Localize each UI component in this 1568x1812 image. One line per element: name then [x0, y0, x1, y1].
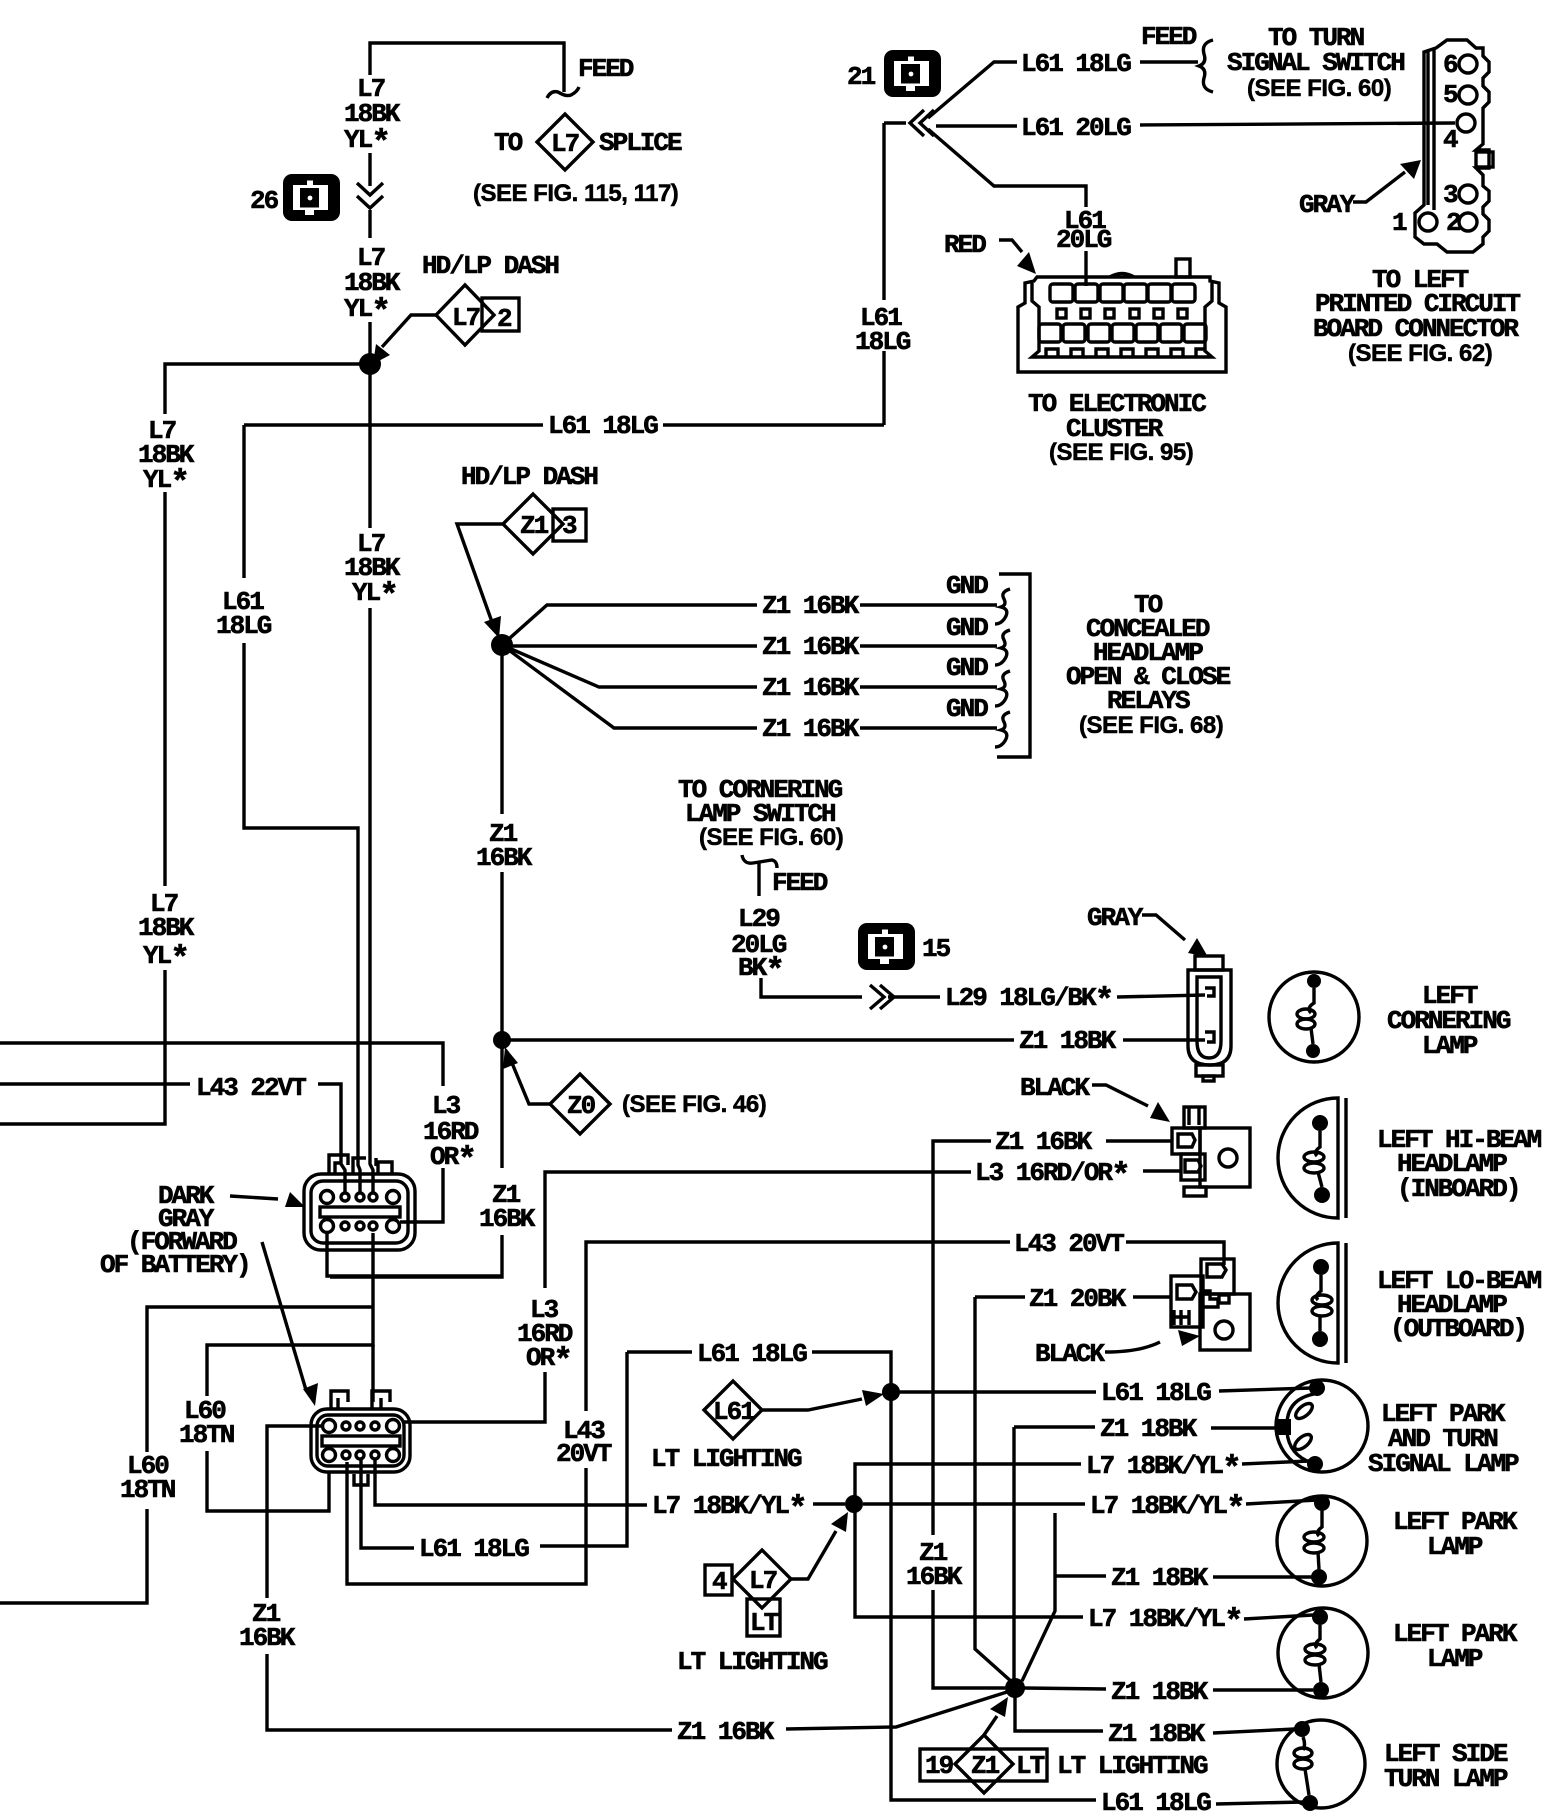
diamond L7 with box 2 (HD/LP DASH pointer) — [482, 298, 519, 331]
svg-text:20LG: 20LG — [1056, 225, 1112, 255]
wire — [1318, 1316, 1321, 1331]
middle slot — [320, 1207, 400, 1217]
wire L7 feed top — [370, 43, 564, 92]
L7 #1 — [855, 1464, 1081, 1504]
wire — [1459, 55, 1477, 73]
svg-text:3: 3 — [1443, 180, 1458, 210]
wire — [627, 1350, 692, 1353]
box — [1203, 1076, 1214, 1081]
wire — [1219, 1388, 1312, 1391]
svg-text:L61 18LG: L61 18LG — [1021, 49, 1131, 79]
wire — [356, 1451, 364, 1459]
cornering bulb — [1269, 972, 1359, 1062]
svg-text:LT: LT — [750, 1608, 779, 1638]
arrowhead — [484, 616, 501, 638]
box — [1081, 309, 1090, 318]
wire — [1117, 995, 1205, 997]
wire — [791, 1531, 836, 1579]
filament coil — [1312, 1306, 1332, 1316]
L3 16RD/OR* wire — [1143, 1169, 1181, 1172]
svg-text:2: 2 — [1446, 208, 1461, 238]
wire — [1189, 1107, 1199, 1125]
wire — [323, 1449, 336, 1462]
svg-text:15: 15 — [922, 934, 951, 964]
svg-text:20VT: 20VT — [556, 1439, 612, 1469]
L7 #3 — [855, 1504, 1083, 1617]
wire — [1185, 1160, 1201, 1172]
arrowhead — [990, 1697, 1008, 1717]
wire — [999, 240, 1022, 252]
cornering lamp connector — [1188, 956, 1231, 1081]
svg-text:(SEE FIG. 95): (SEE FIG. 95) — [1049, 439, 1193, 466]
box — [1100, 284, 1123, 302]
svg-text:Z1 18BK: Z1 18BK — [1108, 1719, 1206, 1749]
svg-text:Z1 16BK: Z1 16BK — [677, 1717, 775, 1747]
lo-beam connector — [1171, 1259, 1250, 1350]
wire — [502, 645, 757, 728]
svg-text:GRAY: GRAY — [1299, 190, 1356, 220]
junction dot B — [491, 634, 513, 656]
wire — [341, 1222, 349, 1230]
Z0 diamond — [550, 1074, 610, 1134]
box — [1063, 324, 1085, 342]
junction dot C — [493, 1031, 511, 1049]
box — [1136, 324, 1158, 342]
svg-text:LAMP: LAMP — [1427, 1644, 1483, 1674]
svg-text:LAMP: LAMP — [1422, 1031, 1478, 1061]
svg-text:Z1 16BK: Z1 16BK — [762, 673, 860, 703]
pins row top — [321, 1191, 334, 1204]
wire — [984, 1716, 997, 1735]
svg-text:4: 4 — [712, 1567, 727, 1597]
junction dot — [1307, 974, 1321, 988]
box — [1171, 1276, 1203, 1327]
svg-text:SIGNAL SWITCH: SIGNAL SWITCH — [1227, 48, 1404, 78]
filament coil — [1294, 1759, 1312, 1769]
wire from diamond to junction — [457, 524, 503, 622]
box — [1130, 309, 1139, 318]
junction dot — [1312, 1609, 1328, 1625]
wire — [1244, 1615, 1313, 1619]
wire — [762, 1399, 862, 1410]
wire — [1211, 1426, 1276, 1429]
wire — [1216, 1802, 1303, 1804]
L61 diamond + arrow — [704, 1381, 762, 1439]
wire — [207, 1451, 329, 1511]
side turn lamp — [1277, 1720, 1365, 1811]
box — [1154, 309, 1163, 318]
svg-text:3: 3 — [562, 511, 577, 541]
svg-text:(SEE FIG. 62): (SEE FIG. 62) — [1348, 340, 1492, 367]
wire — [371, 1451, 379, 1459]
wire — [342, 1422, 350, 1430]
box — [1200, 1294, 1250, 1350]
svg-text:LT LIGHTING: LT LIGHTING — [1057, 1751, 1208, 1781]
arrowhead — [373, 344, 390, 364]
wire — [353, 1158, 376, 1174]
svg-text:LT LIGHTING: LT LIGHTING — [677, 1647, 828, 1677]
filament coil — [1304, 1532, 1324, 1542]
row2 small — [1057, 309, 1066, 318]
Z1 verticals to junction — [933, 1590, 1005, 1688]
wire — [1246, 1500, 1317, 1504]
filament coil — [1304, 1163, 1324, 1173]
wire — [1207, 1264, 1226, 1277]
wire — [1032, 283, 1212, 357]
svg-text:18TN: 18TN — [179, 1420, 234, 1450]
svg-text:Z1 16BK: Z1 16BK — [995, 1127, 1093, 1157]
wire — [860, 685, 997, 688]
wire — [1277, 1720, 1365, 1808]
relay hooks — [995, 589, 1010, 624]
arrowhead — [1400, 160, 1421, 179]
wire — [786, 1692, 1007, 1729]
wire — [1205, 988, 1214, 1042]
row1 boxes — [1050, 284, 1073, 302]
wire — [404, 1372, 545, 1422]
svg-text:L43 22VT: L43 22VT — [196, 1073, 306, 1103]
connector icon 15 — [858, 923, 915, 970]
wire — [1305, 1769, 1309, 1795]
svg-text:RED: RED — [944, 230, 986, 260]
wire — [1316, 1131, 1320, 1156]
box — [1172, 1128, 1200, 1154]
junction dot — [1313, 1682, 1329, 1698]
wire L61 left corner down — [242, 425, 245, 578]
junction dot — [845, 1495, 863, 1513]
wire from diamond to junction with arrowhead — [382, 315, 436, 347]
wire — [331, 1391, 348, 1409]
wire — [545, 1172, 971, 1288]
wire — [1269, 972, 1359, 1062]
box — [1184, 1107, 1205, 1128]
junction dot — [1309, 1380, 1325, 1396]
wire — [975, 1297, 1013, 1683]
svg-text:LT LIGHTING: LT LIGHTING — [651, 1444, 802, 1474]
svg-text:1: 1 — [1392, 208, 1407, 238]
arrowhead — [831, 1512, 848, 1532]
wire — [1318, 1172, 1322, 1187]
svg-text:4: 4 — [1443, 125, 1458, 155]
wire — [733, 1550, 791, 1608]
Z1 18BK wire to cornering lamp — [502, 1038, 1014, 1041]
wire L61 horizontal y425 — [244, 423, 884, 426]
wire — [1318, 1511, 1322, 1536]
wire — [1213, 1729, 1295, 1733]
svg-text:Z1 16BK: Z1 16BK — [762, 591, 860, 621]
wire — [262, 1242, 306, 1390]
arrowhead — [862, 1390, 884, 1406]
wire — [1174, 1310, 1189, 1325]
wire — [1318, 1552, 1319, 1569]
wire — [323, 1420, 336, 1433]
L61 18LG from bottom-middle pin — [361, 1459, 414, 1548]
wire — [400, 1168, 443, 1222]
box — [1195, 956, 1223, 970]
wire — [1309, 988, 1314, 1013]
svg-text:LT: LT — [1016, 1751, 1045, 1781]
Z1 16BK below dot C — [500, 1040, 503, 1168]
wire — [1311, 1028, 1313, 1044]
svg-text:(SEE FIG. 60): (SEE FIG. 60) — [699, 824, 843, 851]
wire — [1276, 1380, 1368, 1472]
L7 18BK/YL* from bottom pin 3 — [375, 1459, 647, 1505]
wire — [368, 210, 371, 238]
inline connector symbol — [884, 50, 941, 97]
wire — [1022, 1513, 1055, 1681]
wire — [1303, 1737, 1305, 1750]
wire — [1278, 1608, 1368, 1698]
wires below connector 1 — [327, 1233, 503, 1276]
wire — [1242, 1461, 1309, 1464]
L7 #2 — [863, 1502, 1085, 1505]
wire — [1140, 123, 1455, 125]
wire — [1213, 1575, 1313, 1578]
terminal — [1275, 1419, 1291, 1435]
chevron marks << — [910, 110, 934, 136]
wire — [1140, 60, 1198, 63]
wire — [860, 726, 997, 729]
junction dot L61 — [882, 1383, 900, 1401]
wire — [1215, 1321, 1233, 1339]
box — [1184, 324, 1206, 342]
wire — [1188, 970, 1231, 1065]
svg-text:(OUTBOARD): (OUTBOARD) — [1390, 1314, 1526, 1344]
wire L7 — [368, 153, 371, 186]
box — [1181, 1154, 1205, 1180]
arrowhead — [1178, 1330, 1200, 1346]
box — [1219, 1295, 1229, 1303]
arrowhead — [1017, 252, 1036, 274]
wire — [1126, 1242, 1224, 1265]
svg-text:18BK: 18BK — [138, 913, 195, 943]
wire — [387, 1191, 400, 1204]
pins row bottom — [321, 1220, 334, 1233]
wire — [860, 603, 997, 606]
svg-text:Z1 18BK: Z1 18BK — [1111, 1563, 1209, 1593]
wire — [147, 1307, 373, 1452]
wire — [369, 1193, 377, 1201]
svg-text:Z1 18BK: Z1 18BK — [1111, 1677, 1209, 1707]
wire — [1178, 1134, 1195, 1147]
wire — [0, 970, 165, 1124]
arrowhead — [503, 1047, 518, 1069]
connector 2 bottom slot tab — [354, 1474, 368, 1485]
wire — [387, 1220, 400, 1233]
svg-text:HD/LP DASH: HD/LP DASH — [422, 251, 558, 281]
junction dot — [1314, 1187, 1330, 1203]
box — [1200, 1128, 1250, 1187]
wire — [267, 1654, 672, 1730]
box — [1178, 309, 1187, 318]
svg-text:16BK: 16BK — [239, 1623, 296, 1653]
wire — [1344, 1098, 1347, 1218]
wire — [1105, 1342, 1160, 1352]
diamond Z1 with box 3 — [553, 509, 586, 541]
top tab + bump — [1176, 259, 1190, 277]
hi-beam connector — [1172, 1107, 1250, 1196]
filament coil — [1304, 1152, 1324, 1162]
svg-text:L61 18LG: L61 18LG — [1101, 1378, 1211, 1408]
wire — [1459, 86, 1477, 104]
filament coil — [1297, 1019, 1315, 1029]
wire — [370, 608, 373, 1193]
svg-text:L61 18LG: L61 18LG — [697, 1339, 807, 1369]
wire — [955, 1735, 1013, 1793]
svg-text:16BK: 16BK — [476, 843, 533, 873]
svg-text:Z1: Z1 — [520, 511, 549, 541]
wire down-right to cluster — [928, 129, 1086, 207]
wire — [0, 1509, 147, 1603]
wire L61 18LG vertical x884 — [882, 123, 885, 300]
box — [1160, 324, 1182, 342]
svg-text:6: 6 — [1443, 50, 1458, 80]
svg-text:FEED: FEED — [578, 54, 634, 84]
box — [1105, 309, 1114, 318]
wire — [244, 643, 360, 1193]
wire — [1277, 1496, 1367, 1586]
hi-beam lamp — [1278, 1098, 1346, 1218]
arrowhead — [1150, 1102, 1170, 1122]
wire up-right to turn signal — [928, 62, 1017, 118]
wire — [0, 1082, 190, 1085]
wire — [1353, 172, 1405, 202]
svg-text:(SEE FIG. 46): (SEE FIG. 46) — [622, 1091, 766, 1118]
filament coil — [1305, 1644, 1325, 1654]
svg-text:Z1 18BK: Z1 18BK — [1100, 1414, 1198, 1444]
wire — [230, 1196, 278, 1199]
wire — [436, 285, 494, 345]
wire — [1012, 1427, 1015, 1688]
svg-text:GND: GND — [946, 694, 988, 724]
wire — [1213, 1688, 1313, 1691]
wire — [1459, 185, 1477, 203]
wire — [1278, 1243, 1338, 1363]
box — [747, 1599, 780, 1636]
box — [1088, 324, 1110, 342]
wire — [1177, 1285, 1196, 1299]
svg-text:L61 20LG: L61 20LG — [1021, 113, 1131, 143]
box — [1148, 284, 1171, 302]
svg-text:SPLICE: SPLICE — [599, 128, 682, 158]
wire — [1459, 213, 1477, 231]
wire — [503, 494, 563, 554]
filament coil — [1294, 1748, 1312, 1758]
wire — [356, 1193, 364, 1201]
wire L61 20LG to pcb connector — [936, 124, 1017, 127]
L43 20VT path — [347, 1462, 586, 1584]
svg-text:FEED: FEED — [1141, 22, 1197, 52]
Z1 20BK wire — [1133, 1295, 1171, 1298]
svg-text:(INBOARD): (INBOARD) — [1397, 1174, 1519, 1204]
svg-text:2: 2 — [497, 304, 512, 334]
wire from chevron hub — [884, 121, 906, 124]
junction dot — [1311, 1569, 1327, 1585]
filament coil — [1312, 1295, 1332, 1305]
box — [1112, 324, 1134, 342]
wire — [1142, 915, 1185, 940]
wire — [813, 1502, 845, 1505]
wire — [860, 644, 997, 647]
box — [1476, 152, 1493, 167]
Z1 16BK from top-left pin going left then down x267 — [267, 1426, 322, 1598]
svg-text:L7: L7 — [452, 303, 480, 333]
box — [317, 1415, 404, 1466]
wire — [812, 1352, 891, 1391]
wire — [1316, 1625, 1320, 1648]
svg-text:Z1 18BK: Z1 18BK — [1019, 1026, 1117, 1056]
bottom notches — [1046, 349, 1205, 357]
Z1 #2 (park lamp 1 bottom) — [1055, 1574, 1106, 1577]
svg-text:Z1 16BK: Z1 16BK — [762, 714, 860, 744]
wire — [207, 1233, 373, 1396]
box — [322, 1436, 400, 1446]
svg-text:L61 18LG: L61 18LG — [548, 411, 658, 441]
svg-text:Z0: Z0 — [567, 1091, 596, 1121]
Z1 #3 — [1024, 1688, 1106, 1689]
svg-text:TURN LAMP: TURN LAMP — [1384, 1764, 1508, 1794]
4 L7 LT symbol + arrow — [705, 1565, 732, 1595]
park lamp 1 — [1277, 1495, 1367, 1586]
wire — [1110, 274, 1134, 278]
wire — [1197, 977, 1221, 1058]
arrowhead — [1188, 938, 1208, 957]
wire L7 vertical below dot — [368, 364, 371, 528]
wire — [330, 1235, 502, 1277]
svg-text:BLACK: BLACK — [1035, 1339, 1105, 1369]
box — [311, 1409, 410, 1472]
junction dot — [1313, 1259, 1329, 1275]
svg-text:L61: L61 — [713, 1397, 755, 1427]
19 Z1 LT symbol — [920, 1749, 1047, 1781]
wire — [500, 872, 503, 1040]
wire — [341, 1193, 349, 1201]
wire — [995, 630, 1010, 665]
wire — [163, 492, 166, 886]
wire — [1278, 1098, 1338, 1218]
filament coil — [1293, 1401, 1315, 1422]
wire — [975, 1295, 1025, 1298]
svg-text:(SEE FIG. 115, 117): (SEE FIG. 115, 117) — [473, 180, 678, 207]
feed squiggle — [547, 87, 579, 98]
wire — [387, 1449, 400, 1462]
svg-text:GND: GND — [946, 613, 988, 643]
park & turn signal lamp — [1275, 1380, 1368, 1472]
svg-text:SIGNAL LAMP: SIGNAL LAMP — [1368, 1449, 1519, 1479]
wire — [1287, 1394, 1314, 1423]
wire — [933, 1141, 991, 1535]
svg-text:26: 26 — [250, 186, 279, 216]
wire — [371, 1422, 379, 1430]
row3 boxes — [1039, 324, 1061, 342]
filament coil — [1304, 1543, 1324, 1553]
svg-text:(SEE FIG. 60): (SEE FIG. 60) — [1247, 75, 1391, 102]
bracket — [997, 574, 1030, 757]
Z1 #4 — [1015, 1688, 1103, 1731]
wire — [378, 1162, 392, 1174]
chevron double — [357, 183, 383, 208]
wire — [512, 1063, 550, 1104]
wire — [502, 645, 757, 687]
box — [1075, 284, 1098, 302]
wire — [1319, 1664, 1321, 1682]
wire — [369, 1222, 377, 1230]
svg-text:21: 21 — [847, 62, 876, 92]
wire — [1344, 1243, 1347, 1363]
junction dot — [1307, 1456, 1323, 1472]
svg-text:16BK: 16BK — [479, 1204, 536, 1234]
wire — [1123, 1038, 1205, 1041]
